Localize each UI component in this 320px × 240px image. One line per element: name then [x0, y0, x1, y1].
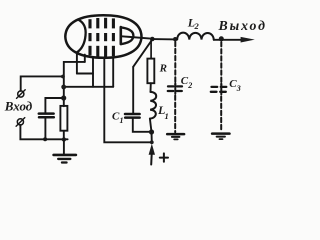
node C1/L1 junction	[149, 129, 154, 134]
grid g3 lead	[92, 57, 94, 87]
supply arrow	[149, 144, 155, 155]
anode	[120, 27, 123, 44]
svg-text:R: R	[159, 63, 167, 75]
cathode stub lead	[84, 55, 86, 62]
svg-text:Вход: Вход	[4, 98, 33, 113]
wire terminal bottom to ground bus	[20, 125, 67, 139]
node C2 tap	[173, 37, 177, 41]
node top of input RC	[61, 95, 66, 100]
plus sign	[160, 157, 168, 159]
ground C2	[167, 133, 184, 136]
cathode lead	[76, 52, 78, 73]
grid g4 column	[112, 18, 115, 56]
wire C1 top lead	[132, 67, 134, 113]
resistor R lead bottom	[150, 83, 152, 92]
wire coil to output node	[214, 39, 222, 41]
resistor R lead top	[150, 41, 152, 59]
svg-text:2: 2	[187, 81, 192, 90]
wire screen grid supply vertical	[104, 58, 152, 143]
grid g1 column	[88, 19, 91, 55]
anode lead	[122, 36, 152, 38]
resistor R	[147, 59, 154, 84]
input terminal bottom	[17, 119, 23, 125]
input resistor	[60, 106, 67, 131]
wire to input node column	[64, 62, 85, 106]
capacitor C3 dashed lead bottom	[220, 97, 222, 132]
capacitor C3 plates	[212, 86, 227, 88]
grid g3 column	[104, 18, 107, 57]
ground	[63, 140, 65, 155]
capacitor C2 dashed lead top	[174, 42, 176, 85]
input capacitor	[39, 112, 54, 115]
node ground bus	[62, 137, 66, 141]
node +B junction	[150, 140, 154, 144]
svg-text:1: 1	[120, 116, 124, 125]
wire diagonal anode node to C1	[133, 40, 152, 67]
capacitor C1	[125, 113, 140, 116]
wire terminal top to node column	[21, 76, 63, 91]
inductor L1	[150, 92, 156, 119]
svg-text:2: 2	[194, 21, 200, 31]
wire node to input capacitor	[45, 98, 63, 113]
svg-text:1: 1	[165, 111, 169, 121]
node C3 tap	[219, 36, 224, 41]
grid g2 column	[96, 18, 99, 57]
svg-text:3: 3	[236, 84, 241, 93]
output arrow	[221, 39, 242, 41]
ground C3	[212, 132, 229, 135]
node input cap bottom	[43, 137, 47, 141]
grid g4 lead	[112, 57, 114, 87]
vacuum tube V1 envelope	[65, 15, 141, 58]
wire top	[152, 38, 177, 40]
capacitor C2 plates	[168, 85, 182, 87]
node	[61, 75, 65, 79]
node on bus	[61, 85, 66, 90]
node A (anode node)	[150, 37, 155, 42]
cathode	[77, 20, 86, 53]
capacitor C2 dashed lead bottom	[174, 96, 176, 133]
capacitor C3 dashed lead top	[220, 42, 222, 85]
wire cathode to g3 lead	[77, 73, 93, 75]
svg-text:Выход: Выход	[218, 18, 267, 33]
inductor L2	[177, 33, 214, 40]
input terminal top	[18, 91, 24, 97]
wire L1 bottom	[150, 119, 152, 143]
wire grid bias bus	[63, 86, 113, 88]
